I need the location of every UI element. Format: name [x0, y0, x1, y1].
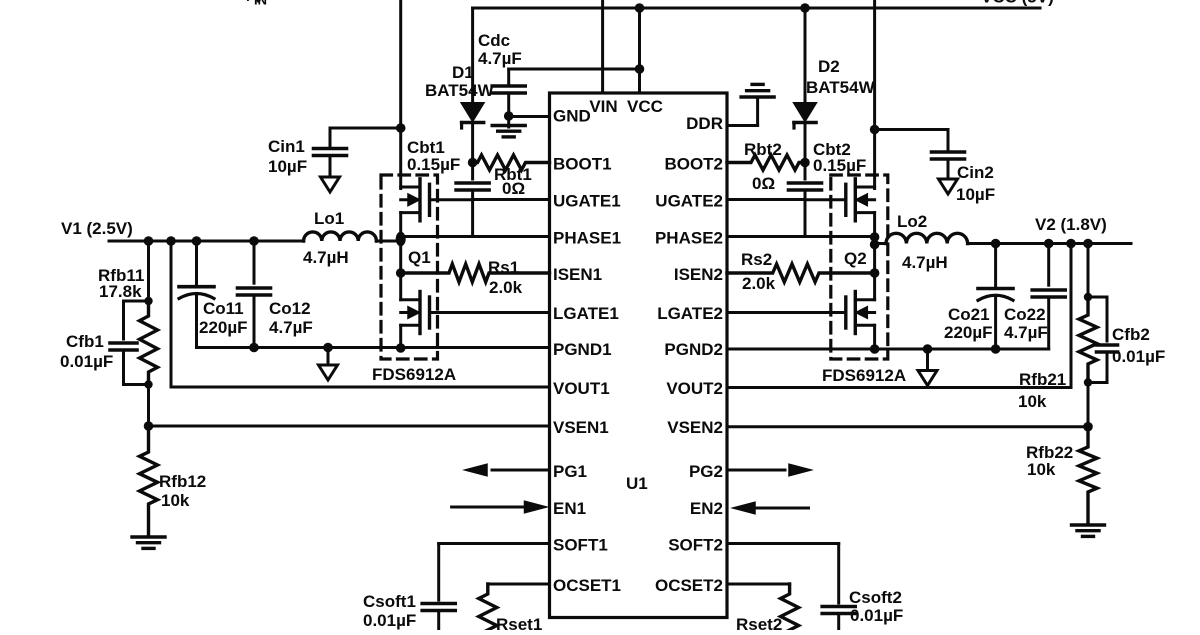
label Cin2 — [957, 163, 994, 182]
pin PG2 label — [689, 462, 723, 481]
pin BOOT1 label — [553, 155, 612, 174]
ground DDR inverted ground — [741, 84, 774, 97]
svg-text:10k: 10k — [161, 491, 190, 510]
node V1 rail junction Co11 — [192, 236, 202, 246]
label Cfb1 — [66, 332, 104, 351]
pin VSEN1 label — [553, 418, 609, 437]
label Lo1 — [314, 209, 344, 228]
label V2 (1.8V) — [1035, 215, 1107, 234]
label Rbt1 value — [502, 179, 525, 198]
label Co21 value — [944, 323, 993, 342]
transistor Q2 upper MOSFET — [805, 179, 875, 221]
label Co22 value — [1004, 323, 1048, 342]
label Q1 — [408, 248, 431, 267]
svg-text:FDS6912A: FDS6912A — [822, 366, 906, 385]
label Co21 — [948, 305, 990, 324]
node PGND1 Co12 junction — [249, 343, 259, 353]
node V1 rail junction Co12 — [249, 236, 259, 246]
diode D1 BAT54W — [462, 8, 484, 163]
pin BOOT2 label — [664, 155, 723, 174]
svg-text:FDS6912A: FDS6912A — [372, 365, 456, 384]
wire Q1 phase down to lower fet — [399, 239, 402, 300]
label Rfb12 — [159, 472, 206, 491]
label Cbt1 — [407, 138, 445, 157]
capacitor Cbt1 — [456, 163, 489, 237]
svg-text:Cin1: Cin1 — [268, 137, 305, 156]
svg-text:0.01µF: 0.01µF — [363, 611, 416, 630]
capacitor Cdc — [492, 69, 639, 127]
wire +VIN left vertical rail — [399, 0, 402, 189]
ground PGND2 arrow — [918, 349, 937, 386]
svg-text:VOUT2: VOUT2 — [666, 379, 723, 398]
transistor Q1 upper MOSFET — [401, 179, 473, 221]
wire OCSET1 pin — [488, 583, 550, 586]
resistor Rbt1 0ohm — [473, 155, 550, 170]
pin DDR label — [686, 114, 723, 133]
svg-text:Cfb2: Cfb2 — [1112, 325, 1150, 344]
node PHASE2 junction lower — [870, 240, 880, 250]
node V1 rail junction Rfb11 — [144, 236, 154, 246]
node VIN-Cin2 junction — [870, 125, 880, 135]
svg-text:0Ω: 0Ω — [502, 179, 525, 198]
svg-text:BOOT2: BOOT2 — [664, 155, 723, 174]
node PGND2 Co21 junction — [991, 344, 1001, 354]
svg-text:4.7µH: 4.7µH — [902, 253, 948, 272]
label Co11 value — [199, 318, 248, 337]
label Rs2 value — [742, 274, 776, 293]
svg-text:VIN: VIN — [589, 97, 617, 116]
svg-text:Lo2: Lo2 — [897, 212, 927, 231]
wire UGATE2 lead — [727, 198, 805, 201]
label V1 (2.5V) — [61, 219, 133, 238]
label D1 — [452, 63, 474, 82]
svg-text:2.0k: 2.0k — [742, 274, 776, 293]
pin EN2 label — [690, 499, 723, 518]
node ISEN2 junction — [870, 268, 880, 278]
capacitor Cfb2 — [1088, 297, 1118, 383]
svg-text:GND: GND — [553, 107, 591, 126]
wire Cin2 top — [875, 128, 948, 131]
resistor Rset1 — [479, 584, 497, 635]
transistor Q2 dashed package outline — [831, 175, 888, 359]
ground Cin1 arrow — [321, 177, 340, 192]
node Rfb21 top junction — [1084, 293, 1092, 301]
label Rs1 — [488, 258, 519, 277]
label Cfb1 value — [60, 352, 113, 371]
node Rfb11 bottom junction — [144, 380, 152, 388]
node V2 rail junction VOUT2 — [1066, 239, 1076, 249]
svg-text:VCC: VCC — [627, 97, 663, 116]
label Lo1 value — [303, 248, 349, 267]
svg-text:SOFT1: SOFT1 — [553, 536, 608, 555]
svg-text:UGATE2: UGATE2 — [655, 192, 723, 211]
pin SOFT1 label — [553, 536, 608, 555]
wire PGND2 rail — [727, 348, 1049, 351]
pin VOUT1 label — [553, 379, 610, 398]
svg-text:Rset2: Rset2 — [736, 615, 782, 630]
label Csoft2 — [849, 588, 902, 607]
wire GND pin — [509, 115, 550, 118]
capacitor Csoft2 — [822, 607, 855, 631]
svg-text:Co11: Co11 — [203, 299, 244, 318]
svg-text:SOFT2: SOFT2 — [668, 536, 723, 555]
label D1 part — [425, 81, 495, 100]
label Rfb11 value — [99, 282, 142, 301]
node VSEN1 junction — [144, 421, 154, 431]
label VCC (5V) (cropped at top) — [981, 0, 1054, 7]
label Rbt2 value — [752, 174, 775, 193]
svg-text:PGND2: PGND2 — [664, 340, 723, 359]
svg-text:Cfb1: Cfb1 — [66, 332, 104, 351]
resistor Rfb22 10k — [1079, 427, 1097, 524]
wire EN1 arrow — [452, 501, 547, 513]
label Rbt1 — [494, 165, 532, 184]
svg-text:BOOT1: BOOT1 — [553, 155, 612, 174]
svg-text:VSEN2: VSEN2 — [667, 418, 723, 437]
svg-text:10k: 10k — [1018, 392, 1047, 411]
label Co22 — [1004, 305, 1046, 324]
wire Cin1 top — [330, 127, 401, 130]
label Rfb21 value — [1018, 392, 1047, 411]
svg-text:U1: U1 — [626, 474, 648, 493]
wire VSEN1 pin — [149, 385, 550, 427]
wire VOUT2 pin — [727, 244, 1071, 388]
label Rfb11 — [98, 266, 144, 285]
node PHASE1 junction — [396, 232, 406, 246]
node D2-VCC junction — [800, 3, 810, 13]
svg-text:Rset1: Rset1 — [496, 615, 542, 630]
svg-text:VOUT1: VOUT1 — [553, 379, 610, 398]
pin PHASE1 label — [553, 229, 621, 248]
svg-text:220µF: 220µF — [944, 323, 993, 342]
op-amp U1 PWM controller box — [550, 93, 728, 618]
label Rset1 — [496, 615, 542, 634]
label Co11 — [203, 299, 244, 318]
wire +VIN right vertical rail — [873, 0, 876, 189]
capacitor Cbt2 — [789, 163, 822, 237]
inductor Lo1 4.7uH — [304, 232, 401, 241]
ground PGND1 arrow — [319, 348, 338, 381]
svg-text:4.7µF: 4.7µF — [478, 49, 522, 68]
node Cdc-GND junction — [504, 111, 514, 121]
svg-text:PHASE2: PHASE2 — [655, 229, 723, 248]
resistor Rfb12 10k — [140, 426, 158, 536]
wire Q2 phase down to lower fet — [873, 245, 876, 300]
label Cfb2 value — [1112, 347, 1165, 366]
transistor Q1 dashed package outline — [381, 175, 438, 359]
transistor Q2 lower MOSFET — [727, 292, 875, 334]
svg-text:ISEN2: ISEN2 — [674, 265, 723, 284]
pin EN1 label — [553, 499, 586, 518]
wire EN2 arrow — [733, 502, 809, 514]
label Cbt2 — [813, 140, 851, 159]
pin OCSET1 label — [553, 576, 621, 595]
label Cfb2 — [1112, 325, 1150, 344]
wire PGND1 rail — [197, 346, 550, 349]
svg-text:V2 (1.8V): V2 (1.8V) — [1035, 215, 1107, 234]
node Cdc-VCC junction — [635, 64, 645, 74]
label Csoft2 value — [850, 606, 903, 625]
wire SOFT2 pin — [727, 544, 839, 604]
wire PHASE2 pin — [727, 235, 875, 238]
wire PG2 arrow — [727, 464, 811, 476]
svg-text:UGATE1: UGATE1 — [553, 192, 621, 211]
wire UGATE1 lead — [473, 198, 550, 201]
resistor Rbt2 0ohm — [727, 155, 805, 170]
svg-text:Co12: Co12 — [269, 299, 311, 318]
wire PG1 arrow — [465, 464, 550, 476]
node BOOT2 junction — [800, 158, 810, 168]
svg-text:OCSET1: OCSET1 — [553, 576, 621, 595]
wire Q1 lower source to PGND — [399, 325, 402, 348]
wire VOUT1 pin — [171, 241, 550, 387]
svg-text:IN: IN — [254, 0, 267, 8]
pin LGATE1 label — [553, 304, 619, 323]
svg-text:Q2: Q2 — [844, 249, 867, 268]
svg-text:VSEN1: VSEN1 — [553, 418, 609, 437]
resistor Rfb11 17.8k — [140, 301, 158, 385]
svg-text:VCC (5V): VCC (5V) — [981, 0, 1054, 7]
wire VIN pin vertical — [601, 0, 604, 93]
svg-text:4.7µF: 4.7µF — [269, 318, 313, 337]
svg-text:V1 (2.5V): V1 (2.5V) — [61, 219, 133, 238]
svg-text:LGATE2: LGATE2 — [657, 304, 723, 323]
node Q2 source PGND junction — [870, 344, 880, 354]
svg-text:220µF: 220µF — [199, 318, 248, 337]
node V1 rail junction VOUT1 — [166, 236, 176, 246]
label Rfb22 value — [1027, 460, 1056, 479]
svg-text:Rfb12: Rfb12 — [159, 472, 206, 491]
wire Rfb21 top — [1087, 244, 1090, 298]
ground Cdc ground symbol — [492, 126, 525, 137]
svg-text:ISEN1: ISEN1 — [553, 265, 602, 284]
label Csoft1 value — [363, 611, 416, 630]
label Co12 — [269, 299, 311, 318]
svg-text:0Ω: 0Ω — [752, 174, 775, 193]
svg-text:4.7µF: 4.7µF — [1004, 323, 1048, 342]
pin VIN label — [589, 97, 617, 116]
svg-text:0.01µF: 0.01µF — [1112, 347, 1165, 366]
pin VCC label — [627, 97, 663, 116]
label Co12 value — [269, 318, 313, 337]
capacitor Cfb1 — [110, 301, 149, 385]
pin OCSET2 label — [655, 576, 723, 595]
svg-text:BAT54W: BAT54W — [806, 78, 876, 97]
node PGND1 gnd junction — [323, 343, 333, 353]
pin LGATE2 label — [657, 304, 723, 323]
wire Rfb11 top — [147, 241, 150, 301]
label U1 — [626, 474, 648, 493]
pin ISEN1 label — [553, 265, 602, 284]
ground Rfb22 ground — [1072, 525, 1105, 536]
node V2 rail junction Co22 — [1044, 239, 1054, 249]
svg-text:2.0k: 2.0k — [489, 278, 523, 297]
resistor Rset2 — [781, 584, 799, 635]
pin UGATE1 label — [553, 192, 621, 211]
label D2 part — [806, 78, 876, 97]
svg-text:Rfb21: Rfb21 — [1019, 370, 1066, 389]
svg-text:OCSET2: OCSET2 — [655, 576, 723, 595]
svg-text:EN1: EN1 — [553, 499, 586, 518]
capacitor Co12 4.7uF — [238, 241, 271, 348]
node V2 rail junction Rfb21 — [1083, 239, 1093, 249]
pin PHASE2 label — [655, 229, 723, 248]
node Cin1-VIN junction — [396, 123, 406, 133]
svg-text:Co22: Co22 — [1004, 305, 1046, 324]
resistor Rfb21 10k — [1079, 297, 1097, 383]
resistor Rs2 2k — [727, 264, 875, 282]
svg-text:Rs2: Rs2 — [741, 250, 772, 269]
label Rs1 value — [489, 278, 523, 297]
pin VSEN2 label — [667, 418, 723, 437]
svg-text:0.01µF: 0.01µF — [60, 352, 113, 371]
pin GND label — [553, 107, 591, 126]
node V2 rail junction Co21 — [991, 239, 1001, 249]
svg-text:Cin2: Cin2 — [957, 163, 994, 182]
wire OCSET2 pin — [727, 583, 790, 586]
svg-text:Rs1: Rs1 — [488, 258, 519, 277]
label Q2 part FDS6912A — [822, 366, 906, 385]
label Cin2 value — [956, 185, 995, 204]
svg-text:D2: D2 — [818, 57, 840, 76]
svg-text:10µF: 10µF — [956, 185, 995, 204]
svg-text:Q1: Q1 — [408, 248, 431, 267]
capacitor Co11 220uF — [179, 241, 214, 348]
node ISEN1 junction — [396, 268, 406, 278]
label Rbt2 — [744, 140, 782, 159]
svg-text:Csoft1: Csoft1 — [363, 592, 416, 611]
svg-text:BAT54W: BAT54W — [425, 81, 495, 100]
node Rfb21 bottom junction — [1084, 378, 1092, 386]
pin VOUT2 label — [666, 379, 723, 398]
pin UGATE2 label — [655, 192, 723, 211]
label D2 — [818, 57, 840, 76]
svg-text:D1: D1 — [452, 63, 474, 82]
wire VCC pin vertical — [638, 8, 641, 93]
wire Lo2 lead — [875, 242, 886, 245]
ground Cin2 arrow — [939, 179, 958, 194]
label +VIN (cropped at top) — [243, 0, 267, 8]
label Rset2 — [736, 615, 782, 634]
node Rfb11 top junction — [144, 297, 152, 305]
label Rfb12 value — [161, 491, 190, 510]
label Rs2 — [741, 250, 772, 269]
label Cdc value — [478, 49, 522, 68]
node PHASE2 junction upper — [870, 232, 880, 242]
svg-text:10k: 10k — [1027, 460, 1056, 479]
svg-text:PGND1: PGND1 — [553, 340, 612, 359]
capacitor Cin1 — [314, 128, 347, 177]
diode D2 BAT54W — [794, 8, 816, 163]
svg-text:DDR: DDR — [686, 114, 723, 133]
node VCC rail junction — [635, 3, 645, 13]
pin PG1 label — [553, 462, 587, 481]
svg-text:0.15µF: 0.15µF — [813, 156, 866, 175]
label Csoft1 — [363, 592, 416, 611]
inductor Lo2 4.7uH — [886, 233, 968, 243]
wire V2 rail — [968, 242, 1131, 245]
svg-text:PG1: PG1 — [553, 462, 587, 481]
wire Q2 lower source to PGND — [873, 325, 876, 349]
svg-text:EN2: EN2 — [690, 499, 723, 518]
resistor Rs1 2k — [401, 264, 550, 282]
label Lo2 — [897, 212, 927, 231]
node BOOT1 junction — [468, 158, 478, 168]
label Cin1 — [268, 137, 305, 156]
pin SOFT2 label — [668, 536, 723, 555]
svg-text:4.7µH: 4.7µH — [303, 248, 349, 267]
node PGND2 gnd junction — [923, 344, 933, 354]
svg-text:10µF: 10µF — [268, 157, 307, 176]
pin PGND2 label — [664, 340, 723, 359]
label Cin1 value — [268, 157, 307, 176]
svg-text:0.01µF: 0.01µF — [850, 606, 903, 625]
capacitor Co21 220uF — [978, 244, 1013, 350]
wire PHASE1 pin — [401, 235, 550, 238]
wire VSEN2 pin — [727, 383, 1088, 427]
svg-text:17.8k: 17.8k — [99, 282, 142, 301]
svg-text:Cdc: Cdc — [478, 31, 510, 50]
svg-text:Lo1: Lo1 — [314, 209, 344, 228]
svg-text:PHASE1: PHASE1 — [553, 229, 621, 248]
label Cdc — [478, 31, 510, 50]
transistor Q1 lower MOSFET — [401, 292, 550, 334]
wire VCC 5V top rail — [473, 7, 1040, 10]
label Cbt2 value — [813, 156, 866, 175]
node Q1 source PGND junction — [396, 343, 406, 353]
svg-text:Rbt2: Rbt2 — [744, 140, 782, 159]
svg-text:0.15µF: 0.15µF — [407, 155, 460, 174]
label Q2 — [844, 249, 867, 268]
capacitor Csoft1 — [422, 604, 455, 631]
wire SOFT1 pin — [439, 544, 550, 601]
wire Q2 source to phase — [873, 213, 876, 245]
svg-text:LGATE1: LGATE1 — [553, 304, 619, 323]
pin PGND1 label — [553, 340, 612, 359]
label Rfb21 — [1019, 370, 1066, 389]
wire DDR pin — [727, 97, 758, 126]
capacitor Cin2 — [932, 130, 965, 179]
wire Q1 source to phase — [399, 213, 402, 244]
wire V1 rail — [109, 240, 304, 243]
svg-text:Co21: Co21 — [948, 305, 990, 324]
svg-text:PG2: PG2 — [689, 462, 723, 481]
label Lo2 value — [902, 253, 948, 272]
capacitor Co22 4.7uF — [1032, 244, 1065, 350]
label Cbt1 value — [407, 155, 460, 174]
svg-text:Csoft2: Csoft2 — [849, 588, 902, 607]
label Q1 part FDS6912A — [372, 365, 456, 384]
label Rfb22 — [1026, 443, 1073, 462]
pin ISEN2 label — [674, 265, 723, 284]
node VSEN2 junction — [1083, 422, 1093, 432]
ground Rfb12 ground — [132, 537, 165, 548]
